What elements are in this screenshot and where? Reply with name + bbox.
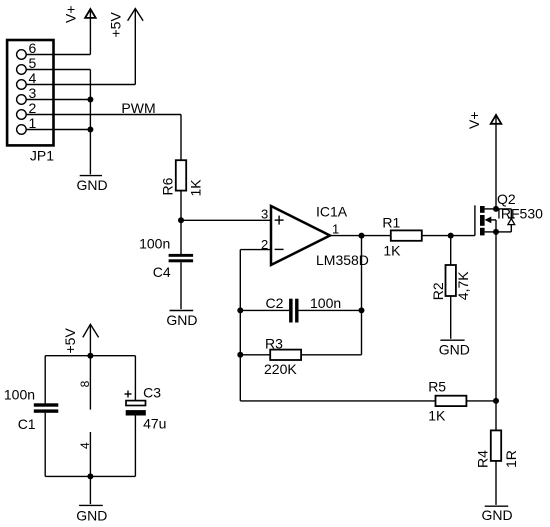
wire R3 right bbox=[301, 354, 361, 356]
ground symbol at R4 bbox=[485, 505, 509, 507]
junction drain bbox=[493, 206, 499, 212]
svg-text:47u: 47u bbox=[143, 416, 166, 432]
junction source bbox=[493, 229, 499, 235]
resistor R2 bbox=[446, 265, 456, 296]
wire +5V rail top bbox=[45, 355, 135, 357]
svg-text:+5V: +5V bbox=[108, 12, 124, 38]
wire feedback right vertical bbox=[361, 236, 363, 355]
wire C2 right bbox=[299, 309, 362, 311]
resistor R4 bbox=[491, 430, 501, 461]
svg-text:100n: 100n bbox=[310, 295, 341, 311]
op-amp IC1A bbox=[271, 206, 330, 265]
svg-text:C4: C4 bbox=[153, 264, 171, 280]
svg-text:JP1: JP1 bbox=[30, 148, 54, 164]
wire R2 bottom bbox=[450, 296, 452, 339]
svg-text:R6: R6 bbox=[159, 177, 175, 195]
svg-text:1R: 1R bbox=[503, 450, 519, 468]
svg-text:IRF530: IRF530 bbox=[497, 205, 543, 221]
junction +5V rail bbox=[87, 353, 93, 359]
wire source down to R5/R4 node bbox=[495, 232, 497, 401]
svg-text:1K: 1K bbox=[428, 408, 446, 424]
junction C2 left bbox=[237, 307, 243, 313]
svg-text:R2: R2 bbox=[430, 282, 446, 300]
svg-text:100n: 100n bbox=[4, 387, 35, 403]
svg-text:GND: GND bbox=[439, 342, 470, 358]
svg-text:4,7K: 4,7K bbox=[455, 271, 471, 300]
IC1 power pin 4 bbox=[89, 432, 91, 476]
ground symbol at JP1 bbox=[80, 175, 102, 177]
junction GND rail bbox=[87, 473, 93, 479]
wire R2 top bbox=[450, 236, 452, 265]
svg-text:R1: R1 bbox=[382, 214, 400, 230]
wire pin4 to +5V bbox=[26, 84, 135, 86]
capacitor C3 bbox=[125, 391, 146, 416]
svg-text:V+: V+ bbox=[466, 111, 482, 129]
body diode of Q2 bbox=[496, 209, 515, 232]
svg-text:8: 8 bbox=[78, 380, 92, 387]
wire R3 left bbox=[240, 354, 270, 356]
svg-text:6: 6 bbox=[29, 40, 37, 56]
wire C3 top bbox=[134, 356, 136, 401]
wire C3 bottom bbox=[134, 416, 136, 477]
junction pin3 bbox=[87, 97, 93, 103]
ground symbol at C4 bbox=[170, 310, 194, 312]
wire C2 left bbox=[240, 309, 289, 311]
junction C2 right bbox=[359, 307, 365, 313]
svg-text:C2: C2 bbox=[266, 295, 284, 311]
svg-text:GND: GND bbox=[166, 312, 197, 328]
connector JP1 bbox=[7, 40, 53, 145]
svg-text:3: 3 bbox=[261, 206, 268, 221]
wire op-amp output bbox=[330, 235, 391, 237]
wire feedback bottom to R5 bbox=[240, 400, 435, 402]
svg-text:5: 5 bbox=[29, 55, 37, 71]
capacitor C2 bbox=[289, 299, 298, 323]
wire pin1 bbox=[26, 129, 90, 131]
junction output node bbox=[359, 233, 365, 239]
svg-text:1K: 1K bbox=[383, 242, 401, 258]
ground symbol bottom left bbox=[79, 504, 103, 506]
power symbol V+ top left bbox=[85, 9, 96, 55]
svg-text:R4: R4 bbox=[475, 450, 491, 468]
wire C4 to ground bbox=[180, 262, 182, 309]
wire pin6 to V+ bbox=[26, 54, 90, 56]
svg-text:1: 1 bbox=[29, 115, 37, 131]
svg-text:PWM: PWM bbox=[121, 100, 155, 116]
ground symbol at R2 bbox=[440, 339, 464, 341]
power symbol +5V bottom left bbox=[83, 324, 99, 355]
svg-text:GND: GND bbox=[77, 177, 108, 193]
capacitor C4 bbox=[169, 254, 194, 262]
svg-text:GND: GND bbox=[482, 507, 513, 523]
wire GND rail bottom bbox=[45, 475, 135, 477]
wire R1 to gate bbox=[422, 235, 475, 237]
junction R5/R4 node bbox=[493, 398, 499, 404]
power symbol +5V top left bbox=[128, 9, 144, 85]
capacitor C1 bbox=[34, 403, 59, 413]
svg-text:4: 4 bbox=[29, 70, 37, 86]
transistor Q2 bbox=[475, 205, 496, 235]
junction R6/C4/pin3 node bbox=[178, 217, 184, 223]
wire pin2 PWM bbox=[26, 114, 181, 116]
resistor R3 bbox=[270, 350, 301, 360]
junction pin1 bbox=[87, 127, 93, 133]
power symbol V+ top right bbox=[491, 115, 502, 209]
svg-text:R5: R5 bbox=[428, 379, 446, 395]
svg-text:+5V: +5V bbox=[62, 328, 78, 354]
resistor R1 bbox=[391, 230, 422, 240]
svg-text:1: 1 bbox=[332, 221, 339, 236]
wire node to R4 bbox=[495, 401, 497, 431]
wire C1 top bbox=[44, 356, 46, 404]
svg-text:100n: 100n bbox=[139, 235, 170, 251]
svg-text:V+: V+ bbox=[63, 5, 79, 23]
wire node to op-amp pin3 bbox=[181, 219, 271, 221]
svg-text:2: 2 bbox=[29, 100, 37, 116]
junction R3 left bbox=[237, 352, 243, 358]
wire C1 bottom bbox=[44, 413, 46, 477]
svg-text:IC1A: IC1A bbox=[316, 203, 348, 219]
wire node to C4 bbox=[180, 220, 182, 254]
svg-text:3: 3 bbox=[29, 85, 37, 101]
svg-text:220K: 220K bbox=[264, 361, 297, 377]
svg-text:GND: GND bbox=[76, 508, 107, 524]
wire op-amp pin2 bbox=[240, 249, 271, 251]
resistor R6 bbox=[176, 160, 186, 190]
wire pin5 to GND rail bbox=[26, 69, 90, 71]
wire R5 right bbox=[466, 400, 496, 402]
svg-text:1K: 1K bbox=[187, 179, 203, 197]
svg-text:4: 4 bbox=[78, 442, 92, 449]
wire R4 to ground bbox=[495, 461, 497, 505]
wire R6 to node bbox=[180, 191, 182, 221]
wire pin3 bbox=[26, 99, 90, 101]
svg-text:R3: R3 bbox=[265, 335, 283, 351]
wire GND rail to ground bbox=[89, 476, 91, 504]
svg-text:C3: C3 bbox=[143, 385, 161, 401]
junction R1/R2 node bbox=[448, 233, 454, 239]
wire feedback left vertical bbox=[239, 250, 241, 401]
wire GND rail vertical bbox=[89, 70, 91, 175]
svg-text:C1: C1 bbox=[18, 416, 36, 432]
IC1 power pin 8 bbox=[89, 356, 91, 410]
wire PWM down to R6 bbox=[180, 115, 182, 161]
resistor R5 bbox=[436, 396, 467, 406]
